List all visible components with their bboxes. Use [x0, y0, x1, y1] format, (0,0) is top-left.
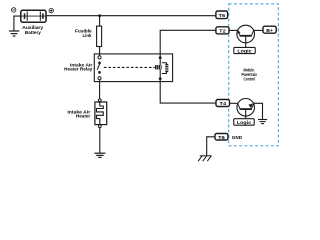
svg-text:T4: T4 [220, 101, 227, 107]
label Intake Air Heater [67, 110, 90, 119]
svg-text:Heater Relay: Heater Relay [64, 67, 93, 72]
wire heater to ground [99, 128, 101, 153]
relay switch blade [97, 64, 100, 70]
intake air heater terminal top [98, 99, 101, 102]
intake air heater terminal bottom [98, 125, 101, 128]
svg-text:Heater: Heater [76, 114, 91, 119]
fusible link F1 [97, 26, 102, 46]
logic block 1 [234, 47, 255, 53]
node junction fusible link tap [98, 14, 101, 17]
svg-text:Logic: Logic [237, 120, 252, 125]
wire T2 to relay coil top [160, 30, 216, 57]
intake air heater HTR1 box [95, 102, 107, 125]
node coil bottom [159, 77, 162, 80]
relay contact node lower [98, 71, 101, 74]
pin T2 (relay coil control) [216, 27, 229, 35]
svg-text:T6: T6 [219, 13, 226, 19]
svg-text:T2: T2 [219, 29, 226, 35]
relay coil winding [155, 65, 162, 69]
ground G2 (heater ground) [94, 153, 105, 157]
pin T6 (bottom, GND) [215, 134, 228, 142]
svg-text:Link: Link [83, 33, 92, 38]
label Fusible Link [75, 29, 92, 39]
label Intake Air Heater Relay [64, 62, 93, 71]
wire battery positive to pin T6 (B+ feed) [46, 15, 216, 17]
wire battery negative to ground [14, 16, 21, 31]
logic block 2 [234, 119, 254, 126]
wire junction to fusible link [99, 16, 101, 26]
module box (Powertrain Control Module, dashed) [229, 4, 279, 146]
chassis ground G4 [198, 156, 211, 161]
pin T4 (heater monitor) [216, 100, 230, 108]
transistor Q2 (low-side driver) [230, 99, 255, 119]
battery negative terminal symbol [12, 8, 16, 12]
svg-text:B+: B+ [266, 28, 273, 34]
transistor Q1 (high-side driver) [229, 25, 255, 47]
relay contact terminal top [98, 56, 101, 59]
wire T6 to chassis ground [207, 137, 215, 156]
battery positive terminal symbol [49, 8, 53, 12]
relay K1 box (Intake Air Heater Relay) [94, 54, 172, 82]
heater element [97, 102, 104, 125]
wire Q2 collector to module ground [254, 103, 263, 119]
wire relay coil bottom to T4 [160, 79, 216, 103]
label Auxiliary Battery [22, 25, 43, 35]
relay contact node upper [98, 62, 101, 65]
wire relay output to heater [99, 80, 101, 99]
ground G1 (battery ground) [9, 31, 19, 36]
B+ supply box [263, 26, 276, 34]
svg-text:Logic: Logic [237, 49, 252, 54]
svg-text:T6: T6 [218, 135, 225, 141]
wire through relay coil [159, 58, 161, 79]
label Module: Powertrain Control [241, 67, 257, 81]
wire Q1 to B+ [254, 29, 263, 31]
battery B1 (Auxiliary Battery) [21, 10, 46, 22]
relay actuation dashed link [104, 66, 155, 68]
pin T6 (top, B+ input) [216, 11, 228, 19]
relay coil core bracket [162, 63, 169, 74]
node coil top [159, 56, 162, 59]
svg-text:Control: Control [244, 77, 255, 82]
ground G3 (module internal ground) [258, 120, 267, 124]
svg-text:GND: GND [232, 135, 243, 141]
relay contact terminal bottom [98, 77, 101, 80]
wire fusible link to relay contact [99, 47, 101, 57]
svg-text:Battery: Battery [25, 30, 42, 35]
